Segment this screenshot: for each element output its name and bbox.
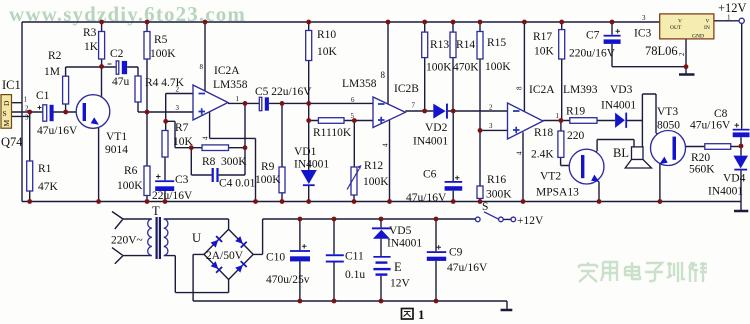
svg-text:R7: R7: [175, 122, 189, 134]
svg-text:560K: 560K: [689, 164, 715, 176]
svg-text:V: V: [706, 19, 710, 25]
svg-text:R16: R16: [487, 174, 506, 186]
svg-text:2: 2: [489, 104, 493, 112]
svg-text:1M: 1M: [44, 66, 60, 78]
svg-text:470K: 470K: [453, 62, 479, 74]
svg-text:R9: R9: [261, 161, 275, 173]
svg-text:IN4001: IN4001: [294, 159, 329, 171]
svg-text:R15: R15: [487, 37, 506, 49]
svg-text:IN4001: IN4001: [601, 100, 636, 112]
svg-text:220V~: 220V~: [111, 235, 143, 247]
svg-text:1: 1: [236, 95, 240, 103]
svg-text:R2: R2: [48, 50, 62, 62]
svg-text:C6: C6: [423, 169, 437, 181]
svg-text:LM358: LM358: [342, 78, 377, 90]
svg-text:C1: C1: [36, 90, 50, 102]
svg-text:VD3: VD3: [610, 84, 633, 96]
svg-text:300K: 300K: [486, 189, 512, 201]
svg-text:VD2: VD2: [425, 122, 448, 134]
svg-text:1: 1: [24, 96, 28, 104]
svg-text:47u/16V: 47u/16V: [37, 125, 78, 137]
svg-text:GND: GND: [692, 34, 704, 40]
svg-text:C7: C7: [586, 30, 600, 42]
svg-text:IC1: IC1: [2, 78, 21, 92]
svg-text:R1: R1: [38, 163, 52, 175]
svg-text:MPSA13: MPSA13: [536, 187, 579, 199]
svg-text:8: 8: [200, 63, 204, 71]
svg-text:R14: R14: [456, 39, 475, 51]
svg-text:100K: 100K: [426, 62, 452, 74]
svg-text:VT3: VT3: [657, 106, 678, 118]
svg-text:R5: R5: [154, 34, 168, 46]
svg-text:1: 1: [556, 112, 560, 120]
svg-text:LM358: LM358: [213, 79, 248, 91]
svg-text:1: 1: [727, 14, 731, 22]
svg-text:IC2A: IC2A: [529, 84, 555, 96]
svg-text:IC2A: IC2A: [214, 65, 240, 77]
svg-text:C3: C3: [175, 174, 189, 186]
svg-text:100K: 100K: [117, 180, 143, 192]
svg-text:22u/16V: 22u/16V: [152, 190, 193, 202]
svg-text:D: D: [2, 100, 11, 106]
svg-text:47u: 47u: [112, 76, 130, 88]
svg-text:VD5: VD5: [389, 225, 412, 237]
svg-text:R10: R10: [317, 29, 336, 41]
svg-text:S: S: [3, 109, 7, 118]
svg-text:6: 6: [351, 96, 355, 104]
svg-text:+12V: +12V: [517, 215, 544, 227]
svg-text:5: 5: [351, 112, 355, 120]
svg-text:7: 7: [412, 102, 416, 110]
svg-text:2A/50V: 2A/50V: [206, 250, 244, 262]
svg-text:4: 4: [516, 151, 524, 155]
svg-text:3: 3: [489, 122, 493, 130]
svg-text:R12: R12: [364, 160, 383, 172]
svg-text:IC2B: IC2B: [394, 83, 419, 95]
svg-text:4: 4: [382, 143, 390, 147]
svg-text:+12V: +12V: [718, 1, 747, 15]
svg-text:0.1u: 0.1u: [345, 269, 365, 281]
svg-text:C4 0.01: C4 0.01: [219, 178, 256, 190]
svg-text:VD4: VD4: [723, 173, 746, 185]
svg-text:VT1: VT1: [106, 131, 127, 143]
svg-text:C9: C9: [449, 247, 463, 259]
svg-text:47u/16V: 47u/16V: [406, 192, 447, 204]
svg-text:R8: R8: [202, 156, 216, 168]
svg-text:3: 3: [642, 14, 646, 22]
svg-text:2: 2: [25, 105, 29, 113]
svg-text:OUT: OUT: [670, 25, 682, 31]
svg-text:8050: 8050: [657, 120, 680, 132]
svg-text:2.4K: 2.4K: [531, 149, 554, 161]
svg-text:9014: 9014: [105, 144, 128, 156]
svg-text:R6: R6: [124, 165, 138, 177]
svg-text:3: 3: [25, 114, 29, 122]
svg-text:C2: C2: [110, 48, 124, 60]
svg-text:300K: 300K: [221, 156, 247, 168]
svg-text:R19: R19: [566, 106, 585, 118]
svg-text:100K: 100K: [150, 48, 176, 60]
svg-text:8: 8: [516, 86, 524, 90]
svg-text:VD1: VD1: [294, 146, 317, 158]
svg-text:C11: C11: [345, 251, 364, 263]
svg-text:T: T: [152, 204, 160, 218]
svg-text:100K: 100K: [255, 174, 281, 186]
svg-text:47u/16V: 47u/16V: [447, 262, 488, 274]
svg-text:8: 8: [381, 70, 386, 80]
svg-text:IN4001: IN4001: [708, 186, 743, 198]
svg-text:R3: R3: [83, 27, 97, 39]
svg-text:2: 2: [176, 86, 180, 94]
svg-text:10K: 10K: [173, 136, 194, 148]
svg-text:3: 3: [176, 104, 180, 112]
svg-text:220u/16V: 220u/16V: [569, 48, 616, 60]
svg-text:VT2: VT2: [540, 171, 561, 183]
svg-text:C10: C10: [266, 252, 285, 264]
svg-text:S: S: [482, 201, 488, 213]
svg-text:220: 220: [567, 130, 585, 142]
svg-text:2: 2: [678, 52, 686, 56]
svg-text:M: M: [2, 120, 11, 127]
svg-text:C5 22u/16V: C5 22u/16V: [255, 86, 312, 98]
svg-text:LM393: LM393: [563, 84, 598, 96]
svg-text:100K: 100K: [363, 176, 389, 188]
svg-text:IC3: IC3: [634, 28, 652, 40]
svg-text:10K: 10K: [317, 46, 338, 58]
svg-text:R13: R13: [430, 39, 449, 51]
svg-text:78L06: 78L06: [645, 44, 678, 58]
svg-text:V: V: [678, 19, 682, 25]
svg-text:IN: IN: [704, 25, 710, 31]
svg-text:12V: 12V: [390, 278, 411, 290]
svg-text:47K: 47K: [38, 181, 59, 193]
svg-text:1: 1: [418, 307, 425, 322]
svg-text:4: 4: [202, 136, 210, 140]
svg-text:470u/25v: 470u/25v: [266, 274, 310, 286]
svg-text:U: U: [192, 231, 201, 245]
svg-text:E: E: [394, 260, 402, 274]
svg-text:C8: C8: [714, 108, 728, 120]
svg-text:47u/16V: 47u/16V: [690, 120, 731, 132]
svg-text:100K: 100K: [485, 61, 511, 73]
svg-text:IN4001: IN4001: [387, 238, 422, 250]
svg-text:BL: BL: [613, 146, 629, 160]
svg-text:10K: 10K: [534, 46, 555, 58]
svg-text:R17: R17: [533, 31, 552, 43]
svg-text:R20: R20: [691, 152, 710, 164]
svg-text:1K: 1K: [84, 41, 99, 53]
svg-text:R1110K: R1110K: [313, 127, 352, 139]
svg-text:R18: R18: [534, 127, 553, 139]
svg-text:Q74: Q74: [1, 135, 23, 149]
svg-text:IN4001: IN4001: [413, 136, 448, 148]
